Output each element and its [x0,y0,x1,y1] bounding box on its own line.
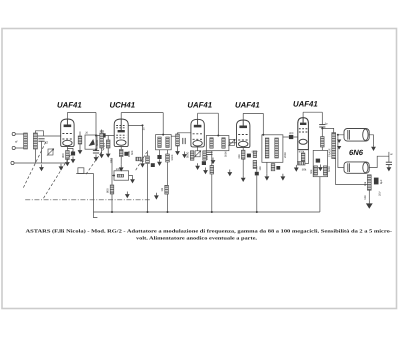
junction [211,211,213,213]
ground [99,152,104,159]
capacitor C15 [316,159,320,163]
ground [387,165,392,172]
wire cathode V2 [120,147,122,150]
resistor R20 [367,175,371,190]
resistor R11 [190,151,194,160]
svg-text:5000: 5000 [224,151,227,157]
svg-text:UCH41: UCH41 [110,101,136,110]
svg-text:6N6: 6N6 [349,148,364,157]
capacitor C8 [183,138,185,144]
svg-text:100: 100 [206,155,209,160]
wire [101,130,103,152]
coil T2a [210,138,213,148]
junction [95,149,97,151]
wire top run stage3 [198,112,219,114]
rectifier capsule 6N6 upper [344,129,369,142]
coil T1a [158,137,161,147]
vacuum tube V4 UAF41 [237,120,250,148]
junction [142,124,144,126]
svg-text:volt. Alimentatore anodico eve: volt. Alimentatore anodico eventuale a p… [136,236,257,242]
wire [334,159,370,185]
wire plate top [120,113,122,119]
input coil L4 [176,134,180,146]
resistor R14b [253,161,257,169]
wire cathode [66,147,68,151]
svg-text:500: 500 [364,195,367,200]
resistor R19 [165,185,169,194]
ground [140,161,145,168]
coil T3a [265,138,269,158]
svg-text:5000: 5000 [95,139,99,146]
wire [322,128,333,132]
wire [338,135,344,168]
wire [79,132,81,148]
svg-text:100: 100 [259,166,262,171]
wire [293,136,298,138]
gang dashed diagonal D [136,152,147,170]
ground [211,158,216,165]
wire [34,149,36,163]
wire top run stage4 [243,112,263,114]
junction [162,134,164,136]
wire [321,127,323,137]
ground [59,164,64,171]
wire [167,162,169,212]
junction [95,135,97,137]
wire [321,147,323,150]
svg-text:2000: 2000 [284,152,287,158]
ground [94,155,99,162]
wire [142,157,144,161]
ground [65,160,70,167]
junction [337,134,339,136]
capacitor C14 [319,125,325,127]
svg-text:20: 20 [85,131,88,134]
junction [111,211,113,213]
svg-text:50k: 50k [302,168,307,172]
wire [262,113,264,134]
ground [227,170,232,177]
wire [120,157,122,165]
coil L5 [297,162,305,165]
wire cathode V4 [242,148,244,151]
resistor R12 [203,151,207,160]
wire [266,162,268,174]
diode arrow [337,140,341,144]
ground [265,174,270,181]
ground [125,192,130,199]
resistor R14 [253,151,256,158]
terminal A2 [12,146,15,149]
wire [256,175,258,212]
resistor R6 [119,150,123,157]
ground [371,144,376,151]
wire [177,146,179,149]
resistor R2 [78,136,82,144]
svg-text:10p: 10p [100,129,105,133]
wire [67,148,73,151]
svg-text:aF: aF [15,141,18,144]
ground [241,175,246,182]
vacuum tube V3 UAF41 [191,119,204,147]
resistor R17 [314,166,318,175]
grid leak box [85,135,97,149]
resistor R18 [323,166,327,175]
svg-text:TRASF.: TRASF. [328,148,331,157]
capacitor C1 [38,139,44,141]
vacuum tube V5 UAF41 [298,118,309,150]
wire grid V1 [38,135,62,137]
svg-text:al: al [390,153,392,156]
wire [283,136,289,138]
svg-text:5000: 5000 [328,166,331,172]
wire [162,113,164,135]
wire [35,131,43,136]
ground [195,163,200,170]
coil T2b [222,138,225,148]
wire [369,152,389,168]
ground [106,151,111,158]
resistor R10 [146,156,150,164]
wire [76,173,93,175]
svg-text:8μF: 8μF [380,179,383,184]
ground [130,177,135,184]
wire top run stage1 [67,112,96,114]
junction [217,135,219,137]
wire [95,113,97,151]
chassis dash-dot line [25,199,151,201]
wire [112,158,114,212]
wire [107,136,109,152]
vacuum tube V1 UAF41 [61,119,74,147]
junction [113,175,115,177]
wire [321,112,323,124]
trimmer CT3 [228,139,235,146]
wire top run stage2 [121,112,163,114]
svg-text:1Ω: 1Ω [160,188,164,192]
coil T3b [275,138,279,158]
capacitor C2 [71,152,75,156]
wire [242,159,244,175]
wire earth run [14,162,66,164]
ground [154,193,159,200]
trimmer CT1 [47,148,54,155]
ground [294,165,299,172]
capacitor C17 [374,178,379,185]
vacuum tube V2 UCH41 [114,119,128,147]
capacitor C13 [289,135,293,139]
capacitor C4 [93,151,99,153]
junction [147,211,149,213]
svg-text:5000: 5000 [186,151,190,158]
resistor R14c [271,164,275,171]
wire [211,151,213,212]
wire [129,176,133,177]
wire [171,133,191,136]
junction [321,127,323,129]
coil form box [78,168,84,174]
junction [167,211,169,213]
ground [366,200,373,208]
ground [318,165,323,172]
resistor R8 [110,185,114,194]
resistor R3 [106,140,110,148]
heater bus wire [94,211,320,213]
junction [256,211,258,213]
wire AF out down [319,177,321,212]
oscillator box [114,171,129,180]
wire [256,166,258,172]
resistor R13 [241,150,245,159]
wire [15,147,25,149]
resistor R1 [66,151,70,160]
FM detector transformer T3 [262,135,283,163]
svg-text:ASTARS (F.lli Nicola) - Mod. R: ASTARS (F.lli Nicola) - Mod. RG/2 - Adat… [26,229,393,235]
capacitor C16 [386,162,392,164]
diode arrow [89,139,95,146]
gang dashed diagonal C [86,148,104,174]
diode box V5 [298,150,309,164]
svg-text:UAF41: UAF41 [293,99,318,108]
capacitor C6 [157,155,161,159]
wire plate top [197,113,199,119]
capacitor C3 [101,133,106,137]
oscillator coil L3 [100,133,104,148]
svg-text:300: 300 [289,132,294,135]
svg-text:UAF41: UAF41 [57,101,82,110]
svg-text:UAF41: UAF41 [187,101,212,110]
wire grid V4 [229,142,237,144]
svg-text:30: 30 [143,127,146,130]
resistor R16 [321,137,325,147]
trimmer CT2 [194,150,201,157]
svg-text:5p: 5p [325,122,328,125]
wire plate top [66,113,68,120]
ground [71,157,76,164]
wire [167,150,169,154]
svg-text:800: 800 [106,188,110,193]
svg-text:UAF41: UAF41 [235,101,260,110]
capacitor C5 [124,152,128,156]
svg-text:10k: 10k [364,181,367,186]
ground [203,168,208,175]
resistor R9 [166,154,170,162]
ground [182,152,187,159]
ground [78,148,83,155]
wire coupling [96,135,115,137]
wire [159,150,161,155]
ground [281,174,286,181]
junction [262,134,264,136]
wire anode2 [128,125,143,156]
wire [94,174,98,218]
wire [217,113,219,135]
wire [368,190,370,200]
wire [41,141,43,163]
ground [175,149,180,156]
wire plate top [242,113,244,120]
capacitor C9 [206,152,212,154]
ground [157,159,162,166]
svg-text:300: 300 [238,154,241,159]
resistor R12b [210,166,214,175]
IF transformer T1 [156,135,172,150]
svg-text:470k: 470k [299,150,305,153]
wire plate top [302,112,304,117]
coil T1b [166,137,169,147]
ground [39,165,44,172]
capacitor C7 [151,163,155,167]
wire [15,133,25,135]
gang dashed diagonal B [44,149,75,198]
gang dashed diagonal A [23,142,46,188]
svg-text:1MΩ: 1MΩ [110,158,113,164]
capacitor C12 [255,172,259,176]
wire top run stage5 [303,111,322,113]
svg-text:500: 500 [131,150,134,155]
wire [369,135,373,144]
capacitor C12b [276,166,280,170]
diode arrow [337,146,341,150]
terminal A1 [12,132,15,135]
output transformer T4 [332,133,336,159]
terminal E [11,161,14,164]
svg-text:300: 300 [61,153,65,158]
resistor R5 [136,157,141,161]
ratio detector box [313,150,327,176]
rectifier capsule 6N6 lower [344,162,369,173]
antenna coil L1 [24,133,28,149]
wire [147,151,149,213]
capacitor C11 [247,154,251,158]
svg-text:50k: 50k [310,169,313,174]
IF transformer T2 [206,136,229,151]
antenna coil L2 [33,133,37,149]
resistor R15 [301,153,305,161]
ground [119,165,124,172]
svg-text:2000: 2000 [116,168,122,171]
capacitor C10 [202,161,206,165]
wire cathode V3 [197,147,199,151]
resistor R7 [117,174,123,177]
svg-text:25V: 25V [379,191,382,196]
svg-text:5000: 5000 [171,154,174,160]
